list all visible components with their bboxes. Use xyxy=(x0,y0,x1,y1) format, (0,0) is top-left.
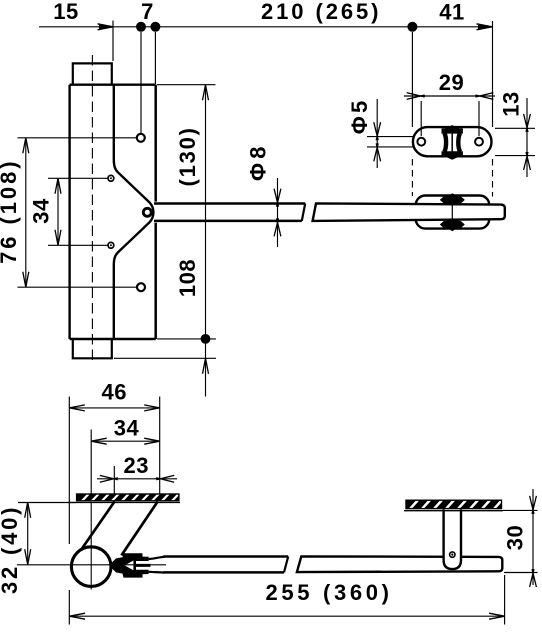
arm segment 2 (bottom view) xyxy=(297,556,502,572)
dot at x=155.4 xyxy=(150,22,160,32)
svg-text:23: 23 xyxy=(124,453,149,478)
end bracket obround (top view) xyxy=(413,127,492,156)
svg-text:108: 108 xyxy=(175,259,200,297)
svg-text:30: 30 xyxy=(502,525,527,550)
svg-text:15: 15 xyxy=(53,0,78,24)
dimension line xyxy=(39,26,492,28)
roller tube circle xyxy=(71,547,111,587)
svg-text:255 (360): 255 (360) xyxy=(266,580,390,605)
extension lines from dots xyxy=(140,32,142,133)
svg-text:Φ5: Φ5 xyxy=(347,100,372,134)
pin ornaments on side bracket xyxy=(440,193,465,206)
svg-text:210 (265): 210 (265) xyxy=(261,0,379,24)
right hatched plate xyxy=(404,498,504,510)
arrow at x=492 (41 right) xyxy=(477,24,493,30)
svg-text:76 (108): 76 (108) xyxy=(0,161,21,264)
dot at x=141 xyxy=(136,22,146,32)
arm (top view) segment 1 xyxy=(154,202,305,205)
top tab xyxy=(73,63,112,84)
clevis black detail at circle xyxy=(109,553,150,577)
arrow at x=113 (15) xyxy=(98,24,114,30)
svg-text:41: 41 xyxy=(439,0,464,25)
svg-text:29: 29 xyxy=(439,70,464,95)
bottom tab xyxy=(73,339,112,358)
right mounting strap (covers arm) xyxy=(444,510,461,570)
dot at x=412.4 xyxy=(407,22,417,32)
arm (top view) segment 2, covers bracket xyxy=(313,203,505,221)
slanted support strap xyxy=(82,502,115,549)
svg-text:Φ8: Φ8 xyxy=(246,146,271,181)
mounting channel plate xyxy=(68,85,70,339)
extension line tab edge xyxy=(112,21,114,62)
obround screw holes xyxy=(417,138,425,146)
spool detail (top view) xyxy=(442,125,463,134)
svg-text:7: 7 xyxy=(141,0,154,24)
svg-text:46: 46 xyxy=(101,380,126,405)
left hatched plate (black band with white slashes) xyxy=(68,493,180,503)
wide plate right edge xyxy=(154,85,157,202)
clevis jaw curves xyxy=(149,557,165,559)
circle centerlines xyxy=(90,495,92,590)
arm segment 1 (bottom view) xyxy=(164,555,289,558)
centerline xyxy=(91,55,93,363)
svg-text:13: 13 xyxy=(499,91,524,116)
holes in channel xyxy=(137,134,145,142)
pivot hole at arm tip xyxy=(143,208,151,216)
svg-text:34: 34 xyxy=(114,416,140,441)
svg-text:34: 34 xyxy=(29,198,54,224)
